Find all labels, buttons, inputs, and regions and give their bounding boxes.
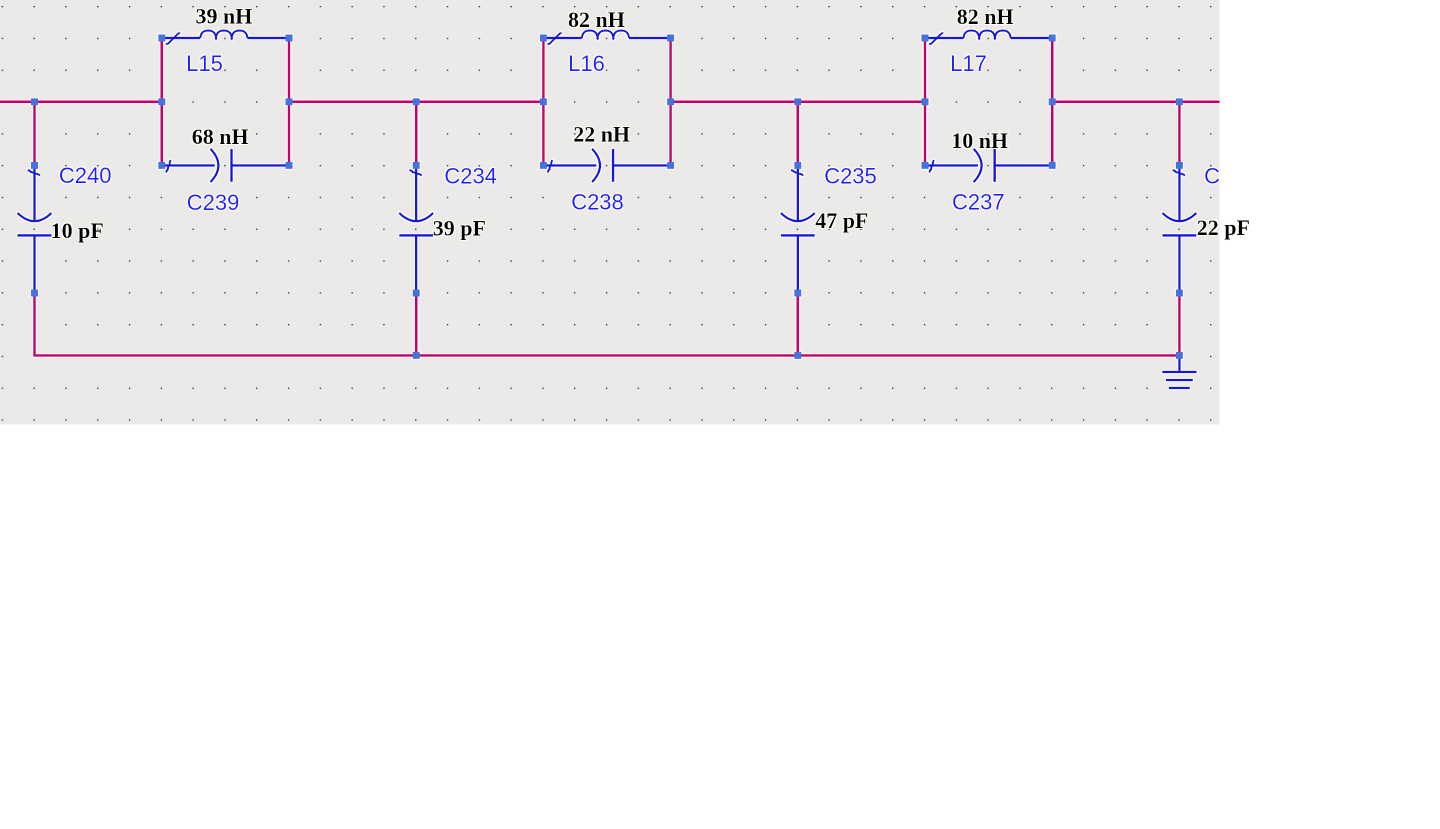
svg-text:10 pF: 10 pF (51, 218, 104, 243)
node bus L16 right junction (667, 98, 674, 105)
ground (1162, 355, 1196, 388)
wire L15 right leg (288, 38, 291, 165)
node C240 pin 1 (31, 162, 38, 169)
capacitor C239 (162, 149, 289, 182)
svg-text:C239: C239 (187, 190, 240, 215)
node L16 pin 2 (667, 35, 674, 42)
svg-text:C238: C238 (571, 189, 624, 214)
svg-text:82 nH: 82 nH (957, 4, 1014, 29)
svg-text:C236: C236 (1204, 163, 1257, 188)
node L17 pin 2 (1049, 35, 1056, 42)
node C237 pin 2 (1049, 162, 1056, 169)
node C238 pin 1 (540, 162, 547, 169)
node bus L17 left junction (922, 98, 929, 105)
svg-text:C234: C234 (444, 163, 497, 188)
svg-text:C237: C237 (952, 190, 1005, 215)
node bus L17 right junction (1049, 98, 1056, 105)
node C237 pin 1 (922, 162, 929, 169)
node bus L15 right junction (286, 98, 293, 105)
svg-text:10 nH: 10 nH (951, 128, 1008, 153)
wire L17 left leg (924, 38, 927, 165)
svg-text:22 nH: 22 nH (573, 121, 630, 146)
capacitor C240 (18, 165, 52, 293)
svg-text:L16: L16 (568, 51, 605, 76)
node L16 pin 1 (540, 35, 547, 42)
wire C236 bottom lead (1178, 293, 1181, 355)
wire L16 right leg (669, 38, 672, 165)
svg-text:82 nH: 82 nH (568, 7, 625, 32)
node bus C234 junction (413, 98, 420, 105)
svg-text:47 pF: 47 pF (815, 208, 868, 233)
capacitor C238 (543, 149, 670, 182)
capacitor C235 (781, 165, 815, 293)
node L17 pin 1 (922, 35, 929, 42)
svg-text:L17: L17 (950, 51, 987, 76)
node bus C236 junction (1176, 98, 1183, 105)
node C240 pin 2 (31, 290, 38, 297)
svg-text:C240: C240 (59, 163, 112, 188)
node bus C235 junction (794, 98, 801, 105)
wire ground rail (33, 354, 1179, 357)
node rail C234 junction (413, 352, 420, 359)
node C239 pin 2 (286, 162, 293, 169)
wire C234 bottom lead (415, 293, 418, 355)
wire bus segment L15 to L16 (289, 101, 543, 104)
wire C240 bottom lead (33, 293, 36, 355)
node C234 pin 2 (413, 290, 420, 297)
svg-text:39 pF: 39 pF (433, 216, 486, 241)
wire C240 top lead (33, 102, 36, 166)
capacitor C237 (925, 149, 1052, 182)
wire L17 right leg (1051, 38, 1054, 165)
node C236 pin 1 (1176, 162, 1183, 169)
node bus L15 left junction (158, 98, 165, 105)
svg-text:22 pF: 22 pF (1197, 215, 1250, 240)
node bus L16 left junction (540, 98, 547, 105)
wire C236 top lead (1178, 102, 1181, 166)
inductor L15 (162, 30, 289, 43)
node bus C240 junction (31, 98, 38, 105)
wire C235 bottom lead (796, 293, 799, 355)
node C235 pin 2 (794, 290, 801, 297)
node L15 pin 2 (286, 35, 293, 42)
svg-text:39 nH: 39 nH (196, 3, 253, 28)
wire L15 left leg (161, 38, 164, 165)
svg-text:68 nH: 68 nH (192, 124, 249, 149)
capacitor C234 (399, 165, 433, 293)
inductor L16 (543, 30, 670, 43)
node C236 pin 2 (1176, 290, 1183, 297)
node C234 pin 1 (413, 162, 420, 169)
node C235 pin 1 (794, 162, 801, 169)
node L15 pin 1 (158, 35, 165, 42)
inductor L17 (925, 30, 1052, 43)
wire output bus segment (1052, 101, 1219, 104)
wire input bus segment (0, 101, 162, 104)
node C239 pin 1 (158, 162, 165, 169)
capacitor C236 reference label (clipped by canvas edge) (1204, 163, 1257, 188)
wire L16 left leg (542, 38, 545, 165)
node rail ground junction (1176, 352, 1183, 359)
capacitor C236 (1162, 165, 1196, 293)
svg-text:L15: L15 (186, 51, 223, 76)
wire C234 top lead (415, 102, 418, 166)
node rail C235 junction (794, 352, 801, 359)
wire C235 top lead (796, 102, 799, 166)
node C238 pin 2 (667, 162, 674, 169)
svg-text:C235: C235 (824, 163, 877, 188)
wire bus segment L16 to L17 (671, 101, 925, 104)
